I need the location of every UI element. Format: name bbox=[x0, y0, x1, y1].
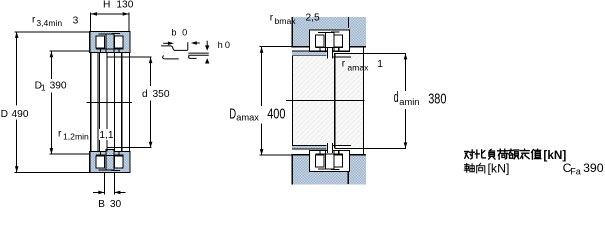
shaft block (right view) bbox=[293, 56, 335, 145]
svg-text:D: D bbox=[229, 107, 236, 123]
svg-text:1: 1 bbox=[377, 59, 383, 70]
svg-text:2,5: 2,5 bbox=[306, 12, 320, 23]
svg-text:B: B bbox=[98, 199, 105, 208]
svg-text:d: d bbox=[394, 90, 399, 106]
svg-text:3,4min: 3,4min bbox=[36, 18, 62, 28]
svg-text:r: r bbox=[32, 15, 36, 26]
dimension H 130 lines bbox=[91, 13, 130, 14]
bearing section lower (right view) bbox=[309, 150, 349, 171]
housing block bottom (right view) bbox=[292, 156, 366, 185]
shaft washer sleeve pin top bbox=[327, 48, 333, 58]
svg-text:3: 3 bbox=[73, 15, 79, 26]
svg-text:r: r bbox=[270, 12, 274, 23]
bearing cross-section upper half (left view) bbox=[90, 31, 130, 52]
dimension d 350 lines bbox=[106, 57, 151, 58]
svg-text:r: r bbox=[342, 58, 346, 69]
cylindrical surface lines between half-sections bbox=[90, 53, 91, 152]
dimension B 30 lines bbox=[104, 173, 105, 195]
shaft shoulder strip bottom bbox=[292, 146, 326, 149]
svg-text:h: h bbox=[218, 40, 223, 50]
washer bore line bottom bbox=[333, 145, 351, 146]
dimension D1 390 lines bbox=[49, 51, 90, 52]
svg-text:1,2min: 1,2min bbox=[63, 131, 89, 141]
housing block top (right view) bbox=[292, 17, 366, 46]
dimension D 490 lines bbox=[14, 31, 90, 32]
svg-text:0: 0 bbox=[225, 40, 230, 50]
shaft washer sleeve pin bottom bbox=[327, 143, 333, 153]
svg-text:400: 400 bbox=[267, 106, 285, 122]
svg-text:130: 130 bbox=[116, 0, 133, 11]
svg-text:490: 490 bbox=[12, 109, 29, 120]
shaft shoulder strip top bbox=[292, 51, 326, 55]
svg-text:D: D bbox=[1, 109, 8, 120]
svg-text:amin: amin bbox=[399, 97, 419, 107]
svg-text:390: 390 bbox=[583, 161, 604, 175]
svg-text:[kN]: [kN] bbox=[543, 148, 566, 162]
svg-text:amax: amax bbox=[236, 113, 259, 123]
dimension Damax 400 lines bbox=[260, 46, 292, 47]
axis line right view bbox=[286, 100, 364, 101]
svg-text:b: b bbox=[171, 27, 176, 37]
svg-text:Fa: Fa bbox=[570, 166, 581, 176]
svg-text:H: H bbox=[103, 0, 110, 11]
svg-text:380: 380 bbox=[428, 91, 446, 107]
svg-text:1: 1 bbox=[41, 82, 46, 92]
svg-text:bmax: bmax bbox=[275, 16, 297, 26]
svg-text:1,1: 1,1 bbox=[99, 130, 113, 141]
svg-text:0: 0 bbox=[182, 27, 187, 37]
svg-text:350: 350 bbox=[153, 89, 170, 100]
label r1,2min 1,1 bbox=[99, 129, 114, 140]
axis line left view bbox=[86, 101, 131, 104]
bearing cross-section lower half (left view) bbox=[90, 151, 130, 172]
svg-text:[kN]: [kN] bbox=[488, 161, 510, 175]
housing relief line top bbox=[348, 17, 349, 28]
svg-text:amax: amax bbox=[347, 63, 369, 73]
chinese heading: comparative load ratings (bold) bbox=[465, 150, 475, 159]
bearing section upper (right view) bbox=[309, 30, 349, 51]
svg-text:d: d bbox=[142, 89, 148, 100]
shaft washer tab protruding above lower section bbox=[106, 149, 114, 155]
washer bore line top bbox=[333, 56, 351, 57]
svg-text:r: r bbox=[58, 128, 62, 139]
housing relief line bottom bbox=[348, 172, 349, 184]
detail sketch groove profile b/h bbox=[161, 41, 209, 59]
chinese label: axial bbox=[464, 163, 474, 172]
dimension damin 380 lines bbox=[335, 53, 406, 54]
svg-text:390: 390 bbox=[50, 81, 67, 92]
svg-text:30: 30 bbox=[110, 199, 122, 208]
